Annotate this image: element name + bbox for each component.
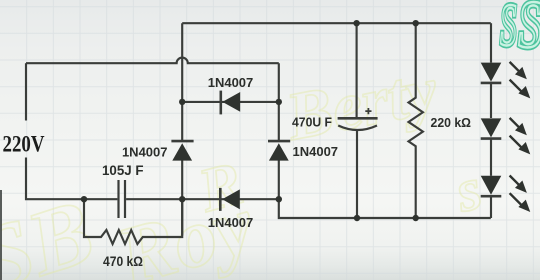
wire: 220V left rail lower segment and bottom AC wire to capacitor C1 (26, 158, 117, 200)
svg-text:470U F: 470U F (292, 115, 332, 130)
junction node: top bus / C2 (353, 20, 359, 26)
diode D4 1N4007 (bottom row, pointing left) (220, 188, 240, 211)
LED D5 light arrows (510, 62, 529, 96)
capacitor C1 105J F plates (119, 180, 126, 218)
junction node: bottom bus / C2 (354, 215, 360, 221)
svg-text:105J F: 105J F (102, 162, 144, 178)
LED D7 (bottom of chain) (481, 138, 502, 218)
svg-text:1N4007: 1N4007 (208, 75, 254, 90)
LED D7 light arrows (510, 176, 529, 210)
svg-text:220 kΩ: 220 kΩ (431, 115, 472, 130)
diode D1 1N4007 (top row, pointing left) (221, 91, 240, 115)
dark video edge, left (0, 190, 2, 280)
svg-text:S: S (518, 0, 540, 62)
LED D6 (middle of chain) (481, 83, 502, 139)
wire: bridge right rail lower + bottom DC- bus (279, 160, 491, 218)
svg-text:1N4007: 1N4007 (293, 144, 339, 159)
resistor R2 220 kOhm (vertical zigzag) (409, 23, 423, 218)
wire: bridge left rail (DC+ node to bottom) (181, 23, 183, 235)
junction node: right rail / top diode row (276, 99, 282, 105)
svg-text:1N4007: 1N4007 (122, 144, 168, 159)
teal signature squiggle "Ss" top-right (500, 0, 540, 62)
capacitor C2 470U F electrolytic (338, 23, 378, 218)
junction node: bottom bus / R2 (413, 215, 419, 221)
watermark outline lettering (0, 51, 488, 280)
junction node: top bus / R2 (413, 20, 419, 26)
diode D2 1N4007 (left rail, pointing up) (171, 141, 193, 161)
wire: bottom AC wire from C1 to bridge right rail (126, 198, 279, 200)
wire: AC line from 220V top terminal with hop over left bridge rail (26, 58, 279, 64)
junction node: C1-R1 left tap (81, 196, 87, 202)
diode D3 1N4007 (right rail, pointing up) (268, 141, 290, 161)
svg-text:470 kΩ: 470 kΩ (103, 253, 143, 269)
junction node: left rail / bottom AC wire (179, 196, 185, 202)
junction node: right rail / bottom diode row (276, 196, 282, 202)
wire: bridge right rail (278, 63, 280, 141)
wire: top diode row (182, 101, 279, 103)
wire: 220V left rail upper segment (25, 63, 27, 120)
junction node: left rail / top diode row (179, 99, 185, 105)
LED D5 (top of chain) (481, 23, 502, 83)
svg-text:1N4007: 1N4007 (208, 215, 254, 230)
svg-text:220V: 220V (3, 132, 45, 157)
svg-text:S: S (500, 0, 517, 58)
resistor R1 470 kOhm (parallel loop with zigzag) (84, 199, 182, 244)
LED D6 light arrows (510, 118, 529, 152)
wire: top DC+ bus (182, 22, 491, 24)
